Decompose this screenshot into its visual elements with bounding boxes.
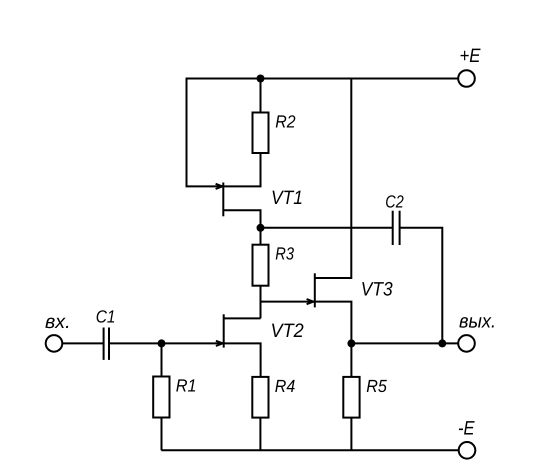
VT1 drain lead <box>223 153 260 186</box>
VT1 source lead <box>223 210 260 228</box>
svg-text:R1: R1 <box>176 376 197 396</box>
transistor VT1 <box>216 153 261 228</box>
node dot top rail <box>257 75 265 83</box>
wire bottom rail <box>161 449 458 451</box>
wire R2 top to rail <box>260 79 262 113</box>
VT3 source lead <box>315 302 352 344</box>
node dot output <box>438 339 446 347</box>
resistor R3 <box>253 245 269 286</box>
svg-text:-E: -E <box>458 417 475 439</box>
node dot VT1 source node <box>257 224 265 232</box>
VT1 channel bar <box>222 183 224 217</box>
wire input node to R1 <box>161 343 163 376</box>
wire left vertical to VT1 gate <box>187 78 223 187</box>
VT1 gate arrowhead <box>216 184 223 189</box>
svg-text:C1: C1 <box>96 306 116 326</box>
wire C1 to input node <box>109 342 162 344</box>
wire top rail <box>187 78 459 80</box>
wire output line <box>351 342 458 344</box>
VT2 channel bar <box>223 314 225 347</box>
resistor R4 <box>252 377 268 418</box>
svg-text:+E: +E <box>460 45 482 67</box>
wire R3 bottom to VT2 drain <box>260 286 262 319</box>
wire node to C2 left plate <box>261 227 393 229</box>
wire VT2 gate <box>162 342 223 344</box>
resistor R1 <box>153 377 169 418</box>
svg-text:вх.: вх. <box>45 311 71 333</box>
capacitor C1 <box>104 328 109 360</box>
terminal +E <box>458 70 475 87</box>
wire R5 bottom to rail <box>350 418 352 451</box>
svg-text:VT2: VT2 <box>271 320 304 342</box>
wire R1 bottom to rail <box>161 418 163 451</box>
svg-text:R3: R3 <box>275 244 294 264</box>
wire node to R3 <box>260 228 262 245</box>
VT2 gate arrowhead <box>216 341 223 346</box>
svg-text:R4: R4 <box>275 376 296 396</box>
transistor VT3 <box>307 79 352 344</box>
transistor VT2 <box>216 314 261 377</box>
wire C2 right to output drop <box>400 228 443 344</box>
svg-text:C2: C2 <box>385 192 404 212</box>
wire input to C1 <box>62 342 103 344</box>
terminal -E <box>459 442 476 459</box>
svg-text:VT3: VT3 <box>361 278 393 300</box>
VT2 drain lead <box>224 317 261 319</box>
VT3 gate arrowhead <box>307 299 314 304</box>
svg-text:R2: R2 <box>275 111 295 131</box>
wire R4 bottom to rail <box>259 418 261 451</box>
terminal вых. <box>458 335 475 352</box>
capacitor C2 <box>393 211 400 245</box>
terminal input <box>46 335 63 352</box>
VT2 source lead <box>224 343 261 377</box>
resistor R2 <box>253 113 269 154</box>
svg-text:вых.: вых. <box>459 311 496 333</box>
wire branch to VT3 gate <box>261 301 315 303</box>
VT3 channel bar <box>314 273 316 307</box>
node dot VT3 source node <box>347 339 355 347</box>
resistor R5 <box>343 377 359 418</box>
VT3 drain lead <box>315 79 352 279</box>
node dot input node <box>158 339 166 347</box>
wire VT3 source node to R5 <box>350 343 352 377</box>
svg-text:VT1: VT1 <box>271 187 303 209</box>
svg-text:R5: R5 <box>366 376 387 396</box>
